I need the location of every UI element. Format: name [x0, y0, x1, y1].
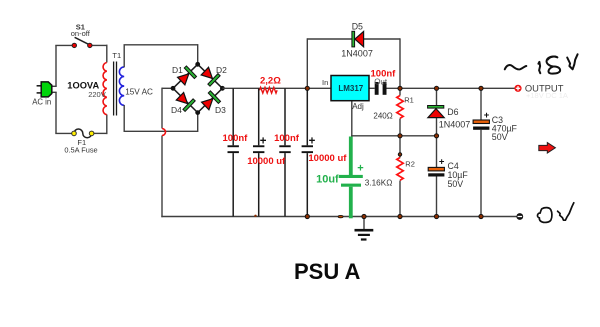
svg-text:50V: 50V: [492, 132, 508, 142]
svg-text:100nf: 100nf: [371, 69, 397, 80]
svg-text:50V: 50V: [448, 179, 464, 189]
svg-text:240Ω: 240Ω: [373, 112, 392, 121]
svg-text:1N4007: 1N4007: [439, 119, 471, 129]
svg-text:100nf: 100nf: [274, 133, 300, 144]
svg-text:R1: R1: [404, 95, 414, 104]
svg-text:15V AC: 15V AC: [125, 87, 153, 96]
svg-text:2,2Ω: 2,2Ω: [260, 76, 281, 87]
svg-text:10000 uf: 10000 uf: [308, 153, 347, 164]
svg-text:PSU A: PSU A: [294, 259, 361, 284]
svg-text:D5: D5: [352, 22, 363, 32]
svg-text:+18V DC 1A: +18V DC 1A: [526, 91, 568, 100]
svg-text:In: In: [322, 78, 328, 87]
svg-text:3.16KΩ: 3.16KΩ: [365, 179, 393, 188]
svg-text:D3: D3: [215, 105, 226, 115]
svg-text:100nf: 100nf: [223, 133, 249, 144]
svg-text:10uf: 10uf: [316, 174, 339, 186]
svg-text:R2: R2: [405, 159, 415, 168]
svg-text:+: +: [309, 136, 316, 148]
svg-text:+: +: [357, 162, 363, 174]
svg-text:D6: D6: [447, 107, 458, 117]
svg-text:+: +: [260, 136, 267, 148]
svg-text:AC in: AC in: [32, 97, 51, 106]
svg-text:T1: T1: [112, 51, 121, 60]
svg-text:LM317: LM317: [338, 84, 363, 93]
svg-text:Adj: Adj: [352, 102, 364, 111]
svg-text:220V: 220V: [88, 90, 106, 99]
svg-text:0.5A Fuse: 0.5A Fuse: [64, 146, 97, 155]
svg-text:+: +: [439, 157, 445, 168]
svg-text:D4: D4: [171, 105, 182, 115]
svg-text:+: +: [484, 110, 490, 121]
svg-text:D1: D1: [172, 65, 183, 75]
svg-text:10000 uf: 10000 uf: [247, 156, 286, 167]
svg-text:D2: D2: [216, 65, 227, 75]
svg-text:on-off: on-off: [71, 29, 91, 38]
svg-text:1N4007: 1N4007: [341, 48, 373, 58]
